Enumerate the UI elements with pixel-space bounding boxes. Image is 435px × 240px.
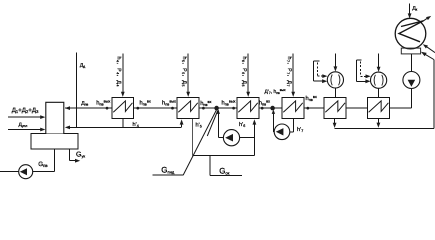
svg-text:Дупл: Дупл — [19, 122, 28, 128]
svg-text:Дк: Дк — [412, 6, 417, 12]
svg-text:Д1+Д2+Д3: Д1+Д2+Д3 — [12, 107, 39, 114]
svg-text:Дпв: Дпв — [81, 101, 88, 107]
svg-text:Gук: Gук — [76, 152, 85, 159]
svg-text:Gпв: Gпв — [38, 161, 48, 168]
svg-text:Дд: Дд — [80, 62, 85, 68]
